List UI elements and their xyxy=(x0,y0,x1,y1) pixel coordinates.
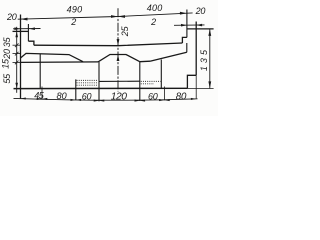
step left xyxy=(28,41,34,45)
svg-text:55: 55 xyxy=(2,73,12,84)
bottom right notch xyxy=(187,75,196,88)
left hidden block wall xyxy=(75,79,77,100)
svg-text:60: 60 xyxy=(148,91,158,101)
svg-text:35: 35 xyxy=(2,36,12,47)
left chain tick recess level xyxy=(13,53,21,55)
left chain tick ledge level xyxy=(13,61,21,63)
dimension line 135 xyxy=(209,29,211,89)
left chain tick deck level xyxy=(13,44,21,46)
svg-text:25: 25 xyxy=(120,25,130,37)
svg-text:45: 45 xyxy=(34,90,45,100)
arrow 135 bottom xyxy=(208,81,211,88)
svg-text:490: 490 xyxy=(67,4,83,14)
right outer face lower extension xyxy=(195,75,197,98)
bottom chain arrow at right xyxy=(191,98,196,100)
bottom chain dimension line xyxy=(14,98,198,100)
arrow 20 right outer a xyxy=(181,24,187,27)
svg-text:15: 15 xyxy=(1,58,11,69)
bottom chain arrows at left edge xyxy=(21,97,26,99)
svg-text:120: 120 xyxy=(111,91,127,102)
dimension line 400/2 xyxy=(118,13,193,17)
arrow 25 up to void top xyxy=(117,55,120,62)
bottom chain arrows at 164.4 xyxy=(159,99,164,101)
left chain arrow bottom xyxy=(15,83,18,89)
left edge with extensions xyxy=(20,15,22,99)
arrow 20 left outer a xyxy=(14,27,20,30)
lip top left xyxy=(13,30,29,32)
arrow 20 right outer b xyxy=(196,24,202,27)
svg-text:80: 80 xyxy=(57,91,68,101)
hidden dotted rows right block xyxy=(141,81,161,83)
left chain slash ticks xyxy=(15,43,19,64)
svg-text:60: 60 xyxy=(82,91,92,101)
right step face xyxy=(182,37,187,43)
arrow 400/2 right xyxy=(180,12,187,15)
wall mid-left xyxy=(39,54,41,89)
bottom edge xyxy=(14,87,188,89)
arrow 490/2 right xyxy=(111,15,118,18)
arrow 400/2 left xyxy=(118,15,125,18)
bottom chain arrows at 75.8 xyxy=(71,99,76,101)
centre void trapezoid xyxy=(98,55,140,62)
dimension line 20 top-left xyxy=(13,28,41,30)
arrow 25 down to deck xyxy=(117,39,120,46)
arrow 135 top xyxy=(208,29,211,36)
arrow 490/2 left xyxy=(21,18,28,21)
wall and chain extension centre-left xyxy=(98,62,100,101)
lip top right with extension to 135 dim xyxy=(187,28,214,30)
wall right of centre xyxy=(160,60,162,89)
left chain dimension line xyxy=(16,27,18,93)
dimension line 20 top-right xyxy=(174,24,205,26)
right void wall under deck xyxy=(186,43,188,52)
hidden ledge under centre void xyxy=(99,80,140,82)
centre axis line xyxy=(117,8,119,91)
left recess bump xyxy=(21,53,84,61)
svg-text:80: 80 xyxy=(176,91,187,102)
wall and chain extension centre-right xyxy=(139,62,141,101)
bottom chain arrows at 42 xyxy=(37,98,42,100)
svg-text:20: 20 xyxy=(6,12,17,22)
ledge line left xyxy=(21,61,99,64)
bottom extension to 135 dim xyxy=(187,88,213,90)
bottom chain arrows at 99 xyxy=(94,100,99,102)
arrow 20 left outer b xyxy=(29,27,35,30)
svg-text:20: 20 xyxy=(195,6,206,16)
lip inner face left with upper extension xyxy=(27,24,29,41)
lip inner face right with upper extension xyxy=(186,10,188,38)
svg-text:400: 400 xyxy=(147,3,163,13)
svg-text:2: 2 xyxy=(70,17,76,27)
svg-text:20: 20 xyxy=(2,49,12,60)
chain extension 60/80 right xyxy=(163,87,165,101)
dimension line 490/2 xyxy=(18,17,118,20)
hidden dotted rows left block xyxy=(77,80,98,85)
bottom chain arrows at 139.8 xyxy=(135,100,140,102)
deck top surface xyxy=(34,43,183,46)
svg-text:2: 2 xyxy=(150,17,156,27)
right outer face xyxy=(195,22,197,76)
ledge line right of trapezoid xyxy=(140,60,150,63)
left chain arrow top xyxy=(15,31,18,37)
right rising ledge xyxy=(150,52,187,61)
chain extension 45/80 xyxy=(41,87,43,100)
svg-text:135: 135 xyxy=(199,47,209,71)
